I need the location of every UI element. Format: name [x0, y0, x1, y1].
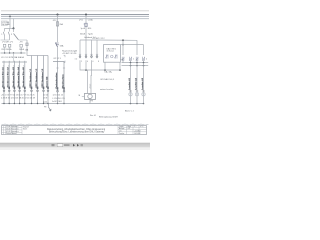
circuit drop 6 — [31, 56, 33, 104]
svg-text:L1 L2 L3 N PE 16A 10A 6A: L1 L2 L3 N PE 16A 10A 6A — [1, 56, 24, 59]
wire leader from label box — [7, 22, 10, 24]
node on control run — [122, 39, 124, 41]
group manifold y=40 — [80, 39, 97, 41]
svg-text:3p 30mA: 3p 30mA — [2, 23, 10, 26]
svg-text:EDV Steckdose 1.3: EDV Steckdose 1.3 — [41, 68, 44, 88]
sub-manifold y=55.5 — [27, 55, 48, 57]
wire center feeder — [57, 15, 59, 43]
toolbar prev arrow — [52, 144, 55, 146]
svg-text:1021-B2: 1021-B2 — [134, 133, 140, 135]
title block right grid — [118, 126, 147, 135]
connector marks on lamp drops — [129, 90, 144, 92]
wire drop2 to controller — [87, 70, 89, 93]
title block frame — [2, 126, 147, 135]
toolbar extra control — [81, 144, 83, 146]
svg-text:2: 2 — [134, 126, 135, 128]
circuit drop 4 — [19, 61, 21, 104]
main switch diagonal — [13, 28, 15, 32]
rotated labels for lamp drops — [128, 77, 144, 89]
connection stubs into N-bus — [4, 47, 6, 53]
wire from box top-right to x=143.5 — [121, 44, 144, 46]
ground symbol — [49, 107, 51, 110]
revision row text — [6, 126, 19, 135]
group drop 1 — [79, 40, 81, 58]
svg-text:EDV Steckdose 1.2: EDV Steckdose 1.2 — [35, 68, 38, 88]
wire feeder to sub-manifold — [26, 40, 28, 56]
svg-text:-F21: -F21 — [79, 20, 83, 22]
svg-text:EDV Steckdose 1.1: EDV Steckdose 1.1 — [29, 68, 32, 88]
wire control run y=40.3 to right — [97, 39, 137, 41]
svg-text:C16A: C16A — [88, 19, 93, 22]
gateway box U1 — [104, 45, 121, 63]
external contact row — [122, 57, 144, 61]
svg-text:-X1 1 3 5 7 9 11 13 15 17 19 2: -X1 1 3 5 7 9 11 13 15 17 19 21 23 25 — [1, 94, 35, 96]
node center feeder on L1 — [57, 14, 59, 16]
wire N-bus y=53 — [1, 52, 26, 54]
wire second drop from L3 — [13, 19, 15, 29]
wire drop x=64 lower — [63, 62, 65, 104]
wire below Q2 — [57, 47, 59, 62]
svg-text:5x16 NYM-J: 5x16 NYM-J — [52, 101, 62, 103]
svg-text:8: 8 — [98, 61, 99, 63]
switch pole 2 — [9, 28, 11, 31]
svg-text:Steckdosen Büro A2: Steckdosen Büro A2 — [7, 66, 10, 87]
svg-text:4: 4 — [146, 58, 147, 60]
PE bus y=103 — [2, 103, 144, 105]
breaker Q2 symbol — [55, 43, 57, 47]
lamp drop 2 — [136, 63, 138, 104]
svg-text:2 4 6 8 10 12 14 16 18 20 22 2: 2 4 6 8 10 12 14 16 18 20 22 24 26 28 — [1, 98, 36, 100]
svg-text:Leuchte A3: Leuchte A3 — [141, 77, 144, 89]
svg-text:2x1,5: 2x1,5 — [89, 84, 91, 89]
svg-text:B10: B10 — [88, 28, 91, 30]
node on L2 (left feeder tap) — [9, 16, 11, 18]
label box -Q1 — [1, 21, 7, 26]
svg-text:DA+ DA-: DA+ DA- — [105, 71, 113, 74]
wire manifold y=62 — [2, 61, 27, 63]
svg-text:Steckdosen Büro A3: Steckdosen Büro A3 — [12, 66, 15, 87]
svg-text:=21: =21 — [128, 128, 131, 130]
svg-text:Leuchte A1: Leuchte A1 — [128, 77, 131, 89]
toolbar page input field — [57, 144, 63, 147]
node group feeder on L1 — [85, 14, 87, 16]
svg-text:2: 2 — [133, 58, 134, 60]
luminaire symbols — [129, 93, 145, 96]
stubs from contacts to lamp lines — [123, 60, 144, 63]
ticks on lower drops — [56, 67, 58, 69]
svg-text:Steckdosen Büro A5: Steckdosen Büro A5 — [22, 66, 25, 87]
wire drop x=123 — [122, 40, 124, 55]
fold ruler strip — [2, 123, 149, 125]
svg-text:Typ A: Typ A — [88, 33, 93, 36]
terminal clamp marks — [64, 55, 65, 57]
wire drop x=143.5 — [143, 45, 145, 55]
svg-text:-X2 1 2 3: -X2 1 2 3 — [53, 58, 61, 60]
svg-text:+21.BV3 / 12.2: +21.BV3 / 12.2 — [92, 38, 105, 40]
circuit drop 7 — [37, 56, 39, 104]
gateway internal contacts — [105, 55, 117, 59]
rotated labels for center drops — [55, 72, 65, 89]
wire y=40 to middle group — [18, 39, 27, 41]
group drop 3 — [91, 40, 93, 58]
wire stub to ground — [48, 104, 50, 108]
svg-text:-P1 kWh: -P1 kWh — [2, 42, 9, 44]
svg-text:weitere Leuchten: weitere Leuchten — [100, 88, 114, 91]
svg-text:+21.BV2 / 4.5: +21.BV2 / 4.5 — [62, 53, 74, 55]
connector pairs under group drops — [79, 56, 98, 58]
svg-text:Wandleuchten: Wandleuchten — [61, 74, 64, 89]
terminal circles on drops — [3, 90, 49, 92]
svg-text:Datum Name: Datum Name — [6, 132, 16, 135]
svg-text:30mA: 30mA — [80, 33, 86, 36]
svg-text:L3 N: L3 N — [43, 98, 48, 100]
svg-text:1p+N: 1p+N — [81, 28, 86, 30]
revision table rows — [2, 128, 23, 133]
svg-text:Beleuchtung Büro, Lichtsteueru: Beleuchtung Büro, Lichtsteuerung über DA… — [49, 131, 105, 134]
svg-text:Deckenleuchten: Deckenleuchten — [55, 72, 58, 89]
fuse F (center feeder) — [56, 22, 58, 26]
circuit drop 5 — [24, 61, 26, 104]
toolbar page count text — [64, 144, 70, 146]
wire controller to PE bus — [89, 99, 91, 103]
lamp drop 1 — [130, 63, 132, 104]
busbar L1 — [1, 14, 149, 16]
circuit drop 8 — [43, 56, 45, 104]
group drop 2 — [85, 40, 87, 58]
right grid text — [119, 125, 143, 135]
revision table verticals — [3, 126, 22, 135]
wire drop3 elbow to controller — [90, 60, 93, 93]
contact slashes — [122, 57, 145, 61]
svg-text:-W1 DALI 2x1,5: -W1 DALI 2x1,5 — [100, 78, 115, 81]
wire drop x=137 — [136, 40, 138, 55]
nodes on N-bus — [4, 52, 5, 53]
svg-text:Rev. 01: Rev. 01 — [90, 115, 96, 117]
svg-text:1: 1 — [1, 34, 2, 36]
svg-text:Norm: Norm — [23, 128, 28, 131]
svg-text:-P3: -P3 — [20, 42, 23, 44]
controller box with circle (ballast) — [85, 93, 96, 99]
wire horizontal distribution y=28.4 — [5, 27, 14, 29]
node at (13.5,28.4) — [13, 27, 15, 29]
meter symbol 2 — [8, 44, 10, 47]
svg-text:Reserve C16: Reserve C16 — [46, 77, 48, 88]
svg-text:4x10: 4x10 — [43, 102, 47, 104]
svg-text:Steckdosen Büro A4: Steckdosen Büro A4 — [17, 66, 20, 87]
terminal circles center drops — [57, 90, 59, 92]
svg-text:Steckdosen Büro A1: Steckdosen Büro A1 — [1, 66, 4, 87]
lamp drop 3 — [143, 63, 145, 104]
wire from drop1 to DALI line — [80, 60, 86, 70]
nodes on lamp lines — [130, 62, 145, 67]
busbar L2 — [1, 15, 149, 17]
switch pole 1 — [4, 28, 6, 31]
svg-text:12 13 14 15: 12 13 14 15 — [53, 95, 64, 97]
svg-text:16 Kanal: 16 Kanal — [107, 51, 115, 53]
fuse marks center drops — [57, 87, 59, 89]
svg-text:L1 N PE L2 N: L1 N PE L2 N — [53, 98, 66, 100]
tiny pole numbers under manifold — [3, 66, 25, 68]
rotated circuit labels (left group) — [1, 66, 48, 87]
svg-text:6: 6 — [93, 61, 94, 63]
svg-text:-P2: -P2 — [10, 42, 13, 44]
drawing frame top edge — [1, 10, 149, 12]
fuse marks on drops — [3, 87, 49, 89]
circuit drop 1 — [3, 61, 5, 104]
circuit drop 2 — [8, 61, 10, 104]
circuit drop 3 — [13, 61, 15, 104]
lamp supply line 2 y=65.6 — [122, 65, 149, 67]
svg-text:4: 4 — [87, 61, 88, 63]
svg-text:v. 2: v. 2 — [140, 126, 143, 128]
wire drop x=57.5 lower — [57, 62, 59, 104]
terminal strip line — [53, 61, 65, 63]
wire y=40 left — [1, 39, 10, 41]
busbar L3 — [1, 18, 149, 20]
nodes on PE bus — [3, 103, 144, 105]
svg-text:Leuchte A2: Leuchte A2 — [135, 77, 138, 89]
svg-text:Zeichn.: Zeichn. — [119, 133, 125, 135]
svg-text:Elektroplanung GmbH: Elektroplanung GmbH — [99, 116, 118, 119]
tick into controller — [82, 95, 85, 97]
toolbar next arrows — [73, 144, 75, 147]
svg-text:-F12: -F12 — [53, 20, 57, 22]
breaker symbol on group feeder — [85, 23, 87, 26]
lamp supply line 1 y=62.6 — [122, 62, 149, 64]
breaker marks on feeder x=27 — [26, 43, 28, 46]
meter symbol 1 — [3, 44, 5, 47]
wire group feeder — [85, 15, 87, 41]
circuit drop 9 — [47, 56, 49, 104]
DALI control line y=70 — [86, 69, 120, 71]
gateway box lower drops — [104, 62, 106, 70]
node on y=44.6 wire — [122, 44, 124, 46]
meter symbol 3 — [20, 44, 22, 47]
nodes on DALI line — [85, 69, 87, 71]
svg-text:1 2: 1 2 — [75, 59, 78, 61]
svg-text:Blatt 2 v. 2: Blatt 2 v. 2 — [125, 110, 134, 113]
svg-text:Datenverteilung, Arbeitsplatzl: Datenverteilung, Arbeitsplatzleuchten, D… — [47, 128, 106, 131]
group drop 4 — [96, 40, 98, 58]
wire left feeder drop — [9, 16, 11, 28]
svg-text:3: 3 — [11, 34, 12, 36]
svg-text:2: 2 — [81, 61, 82, 63]
